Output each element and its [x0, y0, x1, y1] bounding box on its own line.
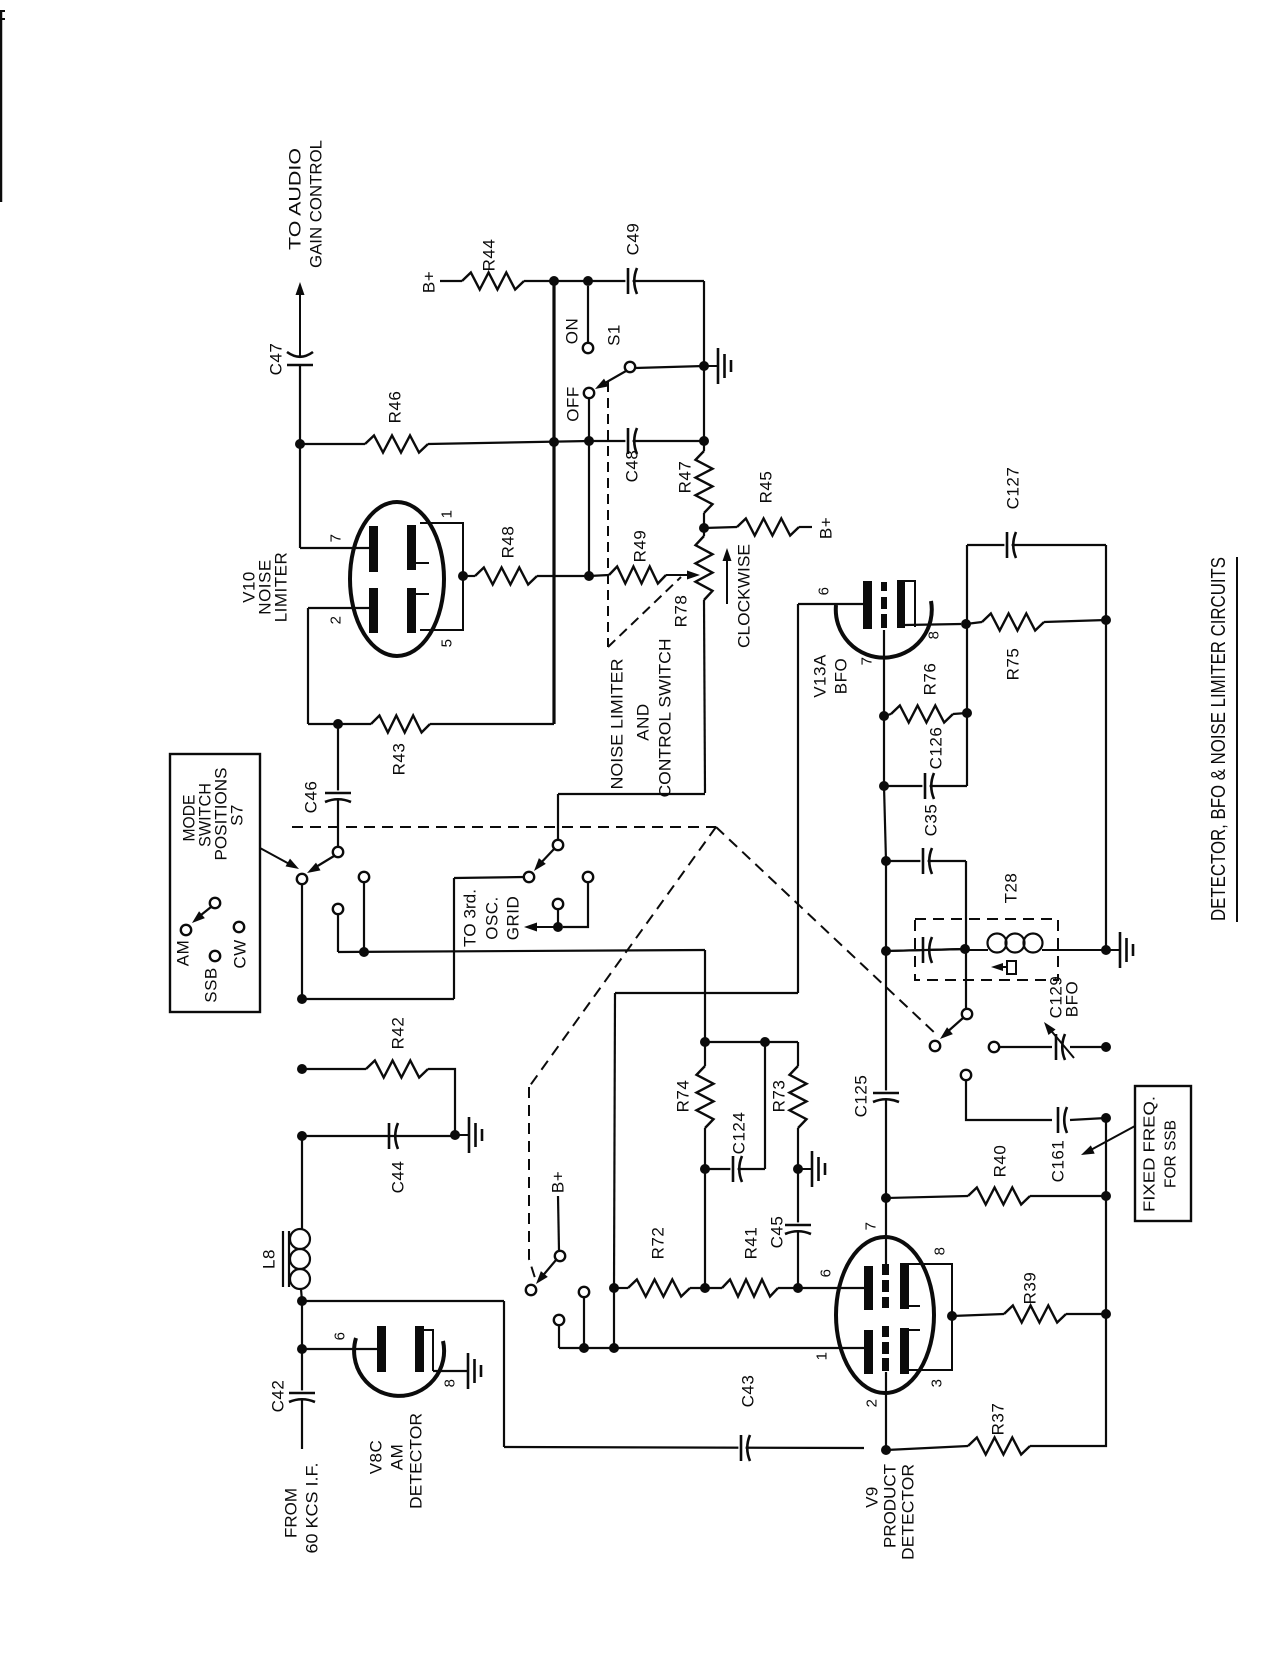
wire V10 pin2: [308, 607, 369, 609]
label SWITCH: [196, 783, 215, 847]
svg-text:LIMITER: LIMITER: [272, 552, 291, 623]
svg-text:V9: V9: [863, 1486, 882, 1508]
dashed linkage S7 horizontal: [292, 826, 716, 828]
svg-text:5: 5: [439, 639, 456, 648]
wire rail R40-R39: [1105, 1196, 1107, 1314]
svg-text:AM: AM: [174, 940, 193, 967]
wire bracket to R48: [463, 575, 475, 577]
tube V10 envelope: [350, 502, 444, 656]
wire V13A pin6: [798, 603, 863, 605]
svg-text:7: 7: [863, 1222, 880, 1231]
label GRID: [504, 896, 523, 941]
arrow TO 3rd OSC GRID: [524, 923, 558, 932]
switch S7 wafer1 contact b: [359, 872, 369, 882]
svg-text:C48: C48: [623, 450, 642, 483]
wire B+ plate rail: [559, 1347, 864, 1349]
junction V9 pin8/3 node: [947, 1311, 957, 1321]
junction V9 pin2/C43/R37: [881, 1445, 891, 1455]
wire R72-R41 link: [690, 1287, 722, 1289]
wire R74 bottom stub: [704, 1128, 706, 1169]
pin label 8 (V8C): [442, 1379, 459, 1388]
svg-text:L8: L8: [260, 1249, 279, 1269]
wire wafer2 c down: [557, 909, 559, 927]
svg-text:R47: R47: [676, 461, 695, 494]
svg-text:C47: C47: [267, 343, 286, 376]
tube V9 envelope: [836, 1237, 934, 1393]
svg-text:R73: R73: [770, 1080, 789, 1113]
capacitor C47: [267, 343, 314, 376]
label V10: [240, 571, 259, 603]
wire R48 to node: [537, 575, 589, 577]
wire wafer1 contact b down: [363, 882, 365, 952]
wire OFF down to C48 node: [588, 398, 590, 441]
junction T28 primary left: [960, 944, 970, 954]
junction C45 bottom node: [793, 1283, 803, 1293]
svg-text:AM: AM: [388, 1444, 407, 1471]
resistor R49: [609, 530, 666, 584]
wire C43 branch down: [503, 1301, 505, 1447]
svg-text:6: 6: [816, 587, 833, 596]
junction R42 tap: [297, 1064, 307, 1074]
wire R74 node down to R41 node: [704, 1169, 706, 1288]
wire junction to ON node: [554, 280, 588, 282]
wire R40 right: [1030, 1195, 1106, 1197]
ground at S1 common: [704, 348, 731, 384]
switch S7 wafer1 blade: [307, 856, 334, 873]
junction R74 bottom node: [700, 1283, 710, 1293]
wire S1 pivot to ground node: [635, 366, 704, 368]
switch S7 wafer3 contact c: [554, 1315, 564, 1325]
wire C125 upper: [885, 951, 887, 1092]
wire OFF node down to R48/R49 node: [588, 441, 590, 576]
capacitor C46: [302, 781, 354, 814]
wire wafer1 AM down: [301, 884, 303, 999]
label POSITIONS: [212, 768, 231, 861]
junction R46/C47 node: [295, 439, 305, 449]
label FOR SSB: [1163, 1120, 1180, 1188]
junction C161 on rail: [1101, 1113, 1111, 1123]
wire C35 col down: [965, 861, 967, 950]
svg-text:8: 8: [926, 631, 943, 640]
svg-text:R39: R39: [1021, 1272, 1040, 1305]
label B+ (R44 feed): [420, 271, 439, 293]
dashed linkage S7 left diagonal: [529, 827, 716, 1087]
wire B+ to R44: [440, 280, 462, 282]
wire T28 node down to wafer4: [965, 950, 967, 1009]
svg-text:R49: R49: [631, 530, 650, 563]
svg-text:S1: S1: [605, 324, 624, 346]
label LIMITER: [272, 552, 291, 623]
capacitor C48: [623, 426, 642, 482]
pin label 5 (V10): [439, 639, 456, 648]
capacitor C43: [738, 1375, 757, 1463]
svg-text:CLOCKWISE: CLOCKWISE: [735, 544, 754, 648]
junction R72 node on rail: [609, 1343, 619, 1353]
wire V9 pin7 up: [885, 1198, 887, 1266]
wire C124 right vert: [764, 1042, 766, 1169]
svg-text:C35: C35: [922, 804, 941, 837]
svg-text:C43: C43: [739, 1375, 758, 1408]
junction R44 node vertical: [549, 437, 559, 447]
switch S7 wafer2 selected contact: [524, 872, 534, 882]
page edge artifact line: [0, 11, 5, 202]
wire V10 pin2 down: [307, 608, 309, 724]
wire V10 pin7: [300, 547, 369, 549]
wire px614 vertical: [614, 993, 615, 1288]
label V13A: [811, 654, 830, 698]
switch S1 OFF contact: [584, 388, 594, 398]
wire V9 pin2 down: [885, 1372, 887, 1450]
junction ON contact node: [583, 276, 593, 286]
wire R76 right: [953, 713, 967, 714]
svg-text:NOISE LIMITER: NOISE LIMITER: [608, 659, 627, 790]
label S7: [228, 804, 247, 826]
svg-text:R40: R40: [991, 1145, 1010, 1178]
wire to wafer2 contact: up: [453, 878, 455, 999]
switch S7 wafer1 AM contact: [297, 874, 307, 884]
tube V8C cathode: [415, 1326, 433, 1372]
wire wafer3 c down: [558, 1325, 560, 1348]
wire pin7 col R76-C126: [883, 716, 885, 786]
wire wafer3 b down: [583, 1297, 585, 1348]
switch S7 wafer3 AM contact: [526, 1285, 536, 1295]
switch S7 wafer2 contact c: [553, 899, 563, 909]
svg-text:PRODUCT: PRODUCT: [881, 1464, 900, 1548]
svg-text:S7: S7: [228, 804, 247, 826]
svg-text:OFF: OFF: [564, 386, 583, 422]
junction C46 tap: [333, 719, 343, 729]
label 60 KCS I.F.: [303, 1463, 322, 1554]
svg-text:R44: R44: [480, 239, 499, 272]
dashed linkage S7 right diagonal: [716, 827, 938, 1036]
wire right rail R75-ground: [1105, 620, 1107, 950]
junction R45 tap: [699, 523, 709, 533]
svg-text:CONTROL SWITCH: CONTROL SWITCH: [656, 639, 675, 798]
wire R45 left: [704, 527, 737, 528]
switch S7 wafer4 blade: [940, 1018, 963, 1039]
tube V13A cathode: [897, 580, 915, 628]
pin label 8 (V9): [932, 1247, 949, 1256]
wire thick node R44-R46: [552, 281, 555, 442]
capacitor C35: [920, 804, 940, 876]
wire to wafer2 contact: right2: [454, 877, 524, 878]
svg-text:B+: B+: [549, 1171, 568, 1193]
wire C126 row: [884, 785, 967, 787]
svg-text:C49: C49: [624, 223, 643, 256]
switch S7 wafer4 AM contact: [930, 1041, 940, 1051]
svg-text:R43: R43: [390, 743, 409, 776]
wire R75 left: [966, 622, 982, 624]
switch S7 wafer4 C129 contact: [989, 1042, 999, 1052]
switch S7 wafer1 moving contact: [333, 847, 343, 857]
tube V10 diode plate 1 (pin7): [369, 526, 378, 572]
label OFF: [564, 386, 583, 422]
svg-text:R37: R37: [989, 1403, 1008, 1436]
wire R74 stubs: [704, 1042, 706, 1066]
tube V8C envelope: [354, 1338, 444, 1396]
svg-text:R48: R48: [499, 526, 518, 559]
svg-text:8: 8: [442, 1379, 459, 1388]
junction AM node / to-osc wire: [297, 994, 307, 1004]
svg-text:R75: R75: [1004, 648, 1023, 681]
label TO AUDIO: [286, 148, 305, 250]
wire node to R72: [614, 1287, 628, 1289]
junction OFF/C48 node: [584, 436, 594, 446]
label title: [1208, 557, 1230, 921]
wire V13A pin8: [905, 624, 961, 625]
resistor R47: [676, 451, 713, 513]
wire C42 to input: [301, 1400, 303, 1449]
label BFO (C129): [1063, 981, 1082, 1017]
svg-text:TO 3rd.: TO 3rd.: [461, 889, 480, 947]
arrow CLOCKWISE: [723, 548, 732, 604]
wire V10 pins1+5 bracket: [420, 523, 463, 630]
svg-text:FIXED FREQ.: FIXED FREQ.: [1142, 1096, 1159, 1212]
svg-text:7: 7: [859, 657, 876, 666]
capacitor C125: [852, 1075, 902, 1118]
resistor R75: [982, 614, 1044, 681]
svg-text:C126: C126: [927, 727, 946, 770]
junction R44/R46 node: [549, 276, 559, 286]
wire R43 left: [308, 723, 371, 725]
label AM (V8C): [388, 1444, 407, 1471]
wire R47 bottom stub: [703, 513, 705, 528]
svg-text:B+: B+: [420, 271, 439, 293]
svg-text:DETECTOR, BFO & NOISE LIMITER: DETECTOR, BFO & NOISE LIMITER CIRCUITS: [1208, 557, 1230, 921]
svg-text:BFO: BFO: [832, 658, 851, 694]
junction R75 right on rail: [1101, 615, 1111, 625]
resistor R37: [968, 1403, 1030, 1455]
svg-text:R76: R76: [921, 663, 940, 696]
dashed linkage S7 left vertical: [529, 1087, 535, 1278]
label T28: [1002, 873, 1021, 904]
switch S7 wafer2 contact b: [583, 872, 593, 882]
wire R74 top rail: [705, 1041, 765, 1043]
wire C48 row: [589, 440, 704, 442]
capacitor C49: [624, 223, 643, 296]
wire C46 upper: [337, 724, 339, 796]
wire R43 right: [430, 723, 554, 725]
switch S7 wafer4 C161 contact: [961, 1070, 971, 1080]
resistor R73: [770, 1066, 807, 1128]
svg-text:1: 1: [439, 510, 456, 519]
wire pin7 col C35-bus: [885, 861, 887, 951]
pin label 2 (V9): [864, 1399, 881, 1408]
tube V9 plate upper: [864, 1266, 873, 1310]
svg-text:T28: T28: [1002, 873, 1021, 904]
wire to wafer2 contact: right: [302, 998, 454, 1000]
svg-text:GAIN CONTROL: GAIN CONTROL: [307, 140, 326, 268]
wire V13A pin6 path vert: [797, 604, 799, 993]
ground at C44: [455, 1117, 482, 1153]
legend AM contact: [174, 925, 193, 966]
capacitor C161: [1049, 1105, 1068, 1182]
svg-text:ON: ON: [563, 318, 582, 345]
wire to C49: [588, 280, 704, 282]
wire pin7 node to R76: [884, 714, 891, 716]
label TO 3rd.: [461, 889, 480, 947]
wire B+ down: [558, 1196, 559, 1251]
pin label 7 (V10): [328, 534, 345, 543]
svg-text:C127: C127: [1004, 467, 1023, 510]
resistor R76: [891, 663, 953, 723]
junction C35 left: [881, 856, 891, 866]
wire R41 to pin6: [778, 1287, 864, 1289]
pin label 8 (V13A): [926, 631, 943, 640]
capacitor C127: [1004, 467, 1023, 560]
wire wafer2 pivot to R78: [558, 793, 705, 795]
wire C125 lower: [885, 1100, 887, 1198]
svg-text:DETECTOR: DETECTOR: [899, 1464, 918, 1560]
junction wafer1 b on bus: [359, 947, 369, 957]
resistor R48: [475, 526, 537, 585]
svg-text:FROM: FROM: [282, 1488, 301, 1538]
wire wafer1 contact c down: [337, 914, 339, 952]
wire detector bus: [338, 950, 705, 952]
svg-text:3: 3: [929, 1379, 946, 1388]
wire node to V10 pin7 corner: [299, 444, 301, 548]
inductor L8: [260, 1229, 311, 1289]
wire wafer4 to C129: [999, 1046, 1052, 1048]
wire R37 right corner: [1030, 1314, 1106, 1446]
resistor R44: [462, 239, 524, 290]
svg-text:C46: C46: [302, 781, 321, 814]
svg-text:V8C: V8C: [367, 1440, 386, 1475]
pin label 6 (V9): [818, 1269, 835, 1278]
wire C35 row: [886, 860, 966, 862]
label B+ (wafer3): [549, 1171, 568, 1193]
tube V10 diode plate 2 (pin2): [369, 588, 378, 633]
wire C45 lower: [797, 1232, 799, 1288]
wire wafer4 C161 contact down: [966, 1080, 1052, 1120]
svg-text:C45: C45: [768, 1216, 787, 1249]
inductor T28 coil: [965, 934, 1106, 953]
capacitor C44: [386, 1121, 407, 1193]
pin label 7 (V13A): [859, 657, 876, 666]
ground at V8C: [468, 1353, 481, 1389]
wire R40 left: [886, 1196, 968, 1198]
junction C44 tap: [297, 1131, 307, 1141]
wire V8C pin6: [302, 1348, 377, 1350]
wire R37 left: [886, 1446, 968, 1450]
svg-text:OSC.: OSC.: [483, 896, 502, 940]
capacitor C126: [922, 727, 945, 801]
svg-text:TO AUDIO: TO AUDIO: [286, 148, 305, 250]
pin label 1 (V9): [814, 1352, 831, 1361]
wire node down to C42: [301, 1301, 303, 1392]
svg-text:2: 2: [864, 1399, 881, 1408]
svg-text:C44: C44: [389, 1161, 408, 1194]
wire V9 pins8+3 bracket: [909, 1264, 952, 1370]
label OSC.: [483, 896, 502, 940]
pin label 3 (V9): [929, 1379, 946, 1388]
ground at BFO rail: [1106, 932, 1133, 968]
arrow mode box pointer: [260, 848, 299, 869]
capacitor C129 (variable): [1044, 1022, 1074, 1060]
junction C48 right node: [699, 436, 709, 446]
wire V8C cathode to ground: [433, 1370, 468, 1372]
junction R39 on rail: [1101, 1309, 1111, 1319]
junction C44/R42 ground node: [450, 1130, 460, 1140]
wire T28 left to bus: [886, 949, 965, 951]
wire wafer2 b down: [563, 882, 588, 927]
junction R76 right: [962, 708, 972, 718]
wire rail C161-R40: [1105, 1118, 1107, 1196]
wire R44 to junction: [524, 280, 554, 282]
wire detector bus right segment: [886, 949, 965, 951]
wire V13A pin6 path horiz: [615, 992, 798, 994]
tube V8C plate: [377, 1326, 386, 1372]
junction V8C pin6 node: [297, 1344, 307, 1354]
svg-text:AND: AND: [634, 703, 653, 740]
tube V10 cathode 1: [407, 525, 429, 570]
wire C127 right down: [1105, 545, 1107, 620]
wire L8 to node: [301, 1289, 302, 1301]
svg-text:SSB: SSB: [202, 967, 221, 1003]
switch S1 blade: [595, 362, 635, 389]
tube V9 grid upper: [882, 1264, 889, 1308]
label FIXED FREQ.: [1142, 1096, 1159, 1212]
svg-text:R72: R72: [649, 1227, 668, 1260]
junction R48/R49/OFF node: [584, 571, 594, 581]
switch S7 wafer3 blade: [536, 1260, 556, 1284]
tube V9 cathode upper: [900, 1263, 920, 1309]
svg-text:6: 6: [332, 1332, 349, 1341]
svg-text:BFO: BFO: [1063, 981, 1082, 1017]
label AND (callout): [634, 703, 653, 740]
pin label 1 (V10): [439, 510, 456, 519]
svg-text:C125: C125: [852, 1075, 871, 1118]
label V8C: [367, 1440, 386, 1475]
wire R46 left: [300, 443, 365, 445]
pin label 7 (V9): [863, 1222, 880, 1231]
wire C44 row: [302, 1135, 455, 1137]
junction V10 pin1/5 node: [458, 571, 468, 581]
svg-text:C161: C161: [1049, 1140, 1068, 1183]
legend SSB contact: [202, 951, 221, 1003]
junction to-3rd-osc node: [553, 922, 563, 932]
wire bus corner down to R74: [704, 950, 706, 1042]
svg-text:C124: C124: [730, 1112, 749, 1155]
label NOISE LIMITER (callout): [608, 659, 627, 790]
svg-text:6: 6: [818, 1269, 835, 1278]
wire R42 left: [302, 1068, 366, 1070]
junction R40 tap: [881, 1193, 891, 1203]
label DETECTOR (V9): [899, 1464, 918, 1560]
svg-text:7: 7: [328, 534, 345, 543]
svg-text:2: 2: [328, 616, 345, 625]
wire C129 to rail: [1070, 1046, 1106, 1048]
tube V9 plate lower: [864, 1330, 873, 1374]
dashed linkage S1 to R78: [608, 382, 681, 647]
title underline: [1236, 557, 1238, 922]
callout box FIXED FREQ FOR SSB: [1135, 1086, 1191, 1221]
pin label 6 (V8C): [332, 1332, 349, 1341]
wire C43 branch right: [302, 1300, 504, 1302]
label V9: [863, 1486, 882, 1508]
wire C46 lower: [337, 800, 339, 847]
legend CW contact: [231, 922, 250, 969]
wire R39 right: [1066, 1313, 1106, 1315]
callout box MODE SWITCH POSITIONS S7: [170, 754, 260, 1012]
resistor R72: [628, 1227, 690, 1297]
wire R49 to R78 wiper arrow: [666, 571, 700, 580]
transformer T28 shield box: [915, 919, 1058, 980]
legend pivot blade: [192, 898, 220, 923]
wire R78 top stub: [703, 528, 705, 536]
resistor R45: [737, 471, 799, 536]
wire R47 top stub: [703, 441, 705, 451]
